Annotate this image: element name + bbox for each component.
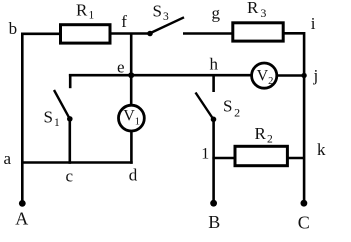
svg-text:B: B	[208, 212, 220, 232]
switch S1	[54, 74, 73, 122]
svg-text:g: g	[212, 4, 221, 23]
wire b to R1	[21, 32, 60, 35]
switch S3	[147, 17, 184, 36]
terminal A	[19, 200, 26, 207]
wire R1 to S3 pivot	[111, 32, 150, 35]
terminal B	[210, 200, 217, 207]
svg-text:b: b	[9, 19, 18, 38]
svg-text:C: C	[298, 212, 310, 232]
svg-text:e: e	[117, 57, 125, 76]
wire V1 to d	[130, 132, 133, 164]
svg-text:h: h	[210, 54, 219, 73]
resistor R1	[61, 25, 111, 43]
wire b-a-A (left vertical)	[21, 33, 24, 204]
wire e-line (S1 stub to V2)	[69, 74, 252, 77]
terminal C	[301, 200, 308, 207]
voltmeter V2	[252, 63, 277, 88]
svg-text:a: a	[4, 149, 12, 168]
svg-text:i: i	[311, 14, 316, 33]
wire S1 to c (bottom line)	[69, 119, 72, 164]
wire l to R2	[212, 157, 236, 160]
junction j	[301, 73, 306, 78]
svg-text:j: j	[313, 66, 319, 85]
svg-text:k: k	[317, 140, 326, 159]
svg-text:f: f	[121, 12, 127, 31]
wire R3 to i corner	[283, 32, 304, 35]
wire f to e to V1 (vertical)	[130, 34, 133, 105]
resistor R3	[233, 23, 283, 41]
wire i-j-k-C (right vertical)	[303, 32, 306, 203]
wire V2 to j	[277, 74, 304, 77]
svg-text:c: c	[66, 166, 74, 185]
wire S3 to R3 (node g)	[183, 32, 233, 35]
switch S2	[196, 74, 217, 122]
junction e	[128, 72, 134, 78]
wire S2 to B (vertical through l)	[212, 119, 215, 203]
svg-text:1: 1	[201, 145, 209, 162]
svg-text:d: d	[129, 166, 138, 185]
wire R2 to k	[287, 157, 304, 160]
resistor R2	[235, 146, 287, 165]
wire a-c-d (bottom line)	[21, 161, 133, 164]
voltmeter V1	[118, 105, 144, 131]
svg-text:A: A	[15, 209, 28, 229]
